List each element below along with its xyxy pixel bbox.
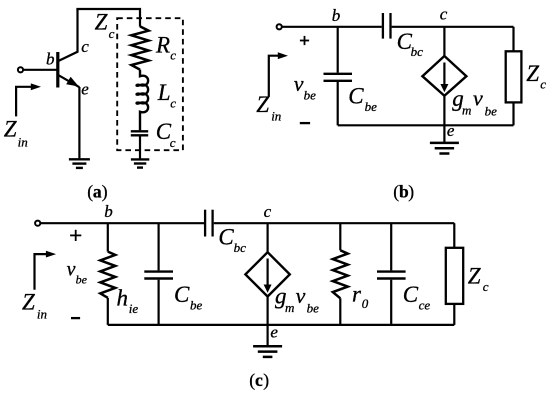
Cbe value label (b) (348, 83, 377, 114)
svg-text:be: be (304, 88, 317, 103)
vbe label (b) (294, 71, 316, 103)
gm vbe label (c) (275, 283, 319, 315)
input terminal (a) (18, 67, 23, 72)
svg-text:R: R (155, 33, 170, 58)
svg-text:m: m (462, 102, 471, 117)
r0 value label (352, 282, 369, 312)
node c label (b) (440, 5, 448, 24)
svg-text:v: v (473, 86, 483, 111)
svg-text:Z: Z (22, 290, 35, 315)
Cbe value label (c) (174, 282, 203, 313)
minus sign (b) (300, 122, 310, 124)
capacitor Cc (131, 131, 148, 135)
caption (b) (393, 182, 414, 202)
impedance Zc box (b) (506, 51, 522, 102)
caption (a) (87, 181, 108, 201)
ground (emitter a) (69, 159, 90, 168)
wire top right (c) (214, 222, 455, 224)
svg-text:c: c (170, 135, 176, 150)
wire top left (c) (41, 222, 205, 224)
plus sign (c) (70, 230, 81, 241)
ground (Zc network) (131, 159, 149, 167)
wire Cbe to bottom (b) (337, 82, 339, 125)
svg-text:m: m (285, 300, 294, 315)
svg-text:c: c (540, 76, 546, 91)
inductor Lc (137, 70, 149, 131)
Zin arrow (b) (269, 52, 288, 97)
plus sign (b) (300, 36, 309, 45)
node b label (c) (104, 202, 113, 221)
wire Cc to ground (139, 136, 141, 158)
Zin arrow (a) (16, 83, 41, 116)
wire Zc to bottom (c) (453, 304, 455, 325)
svg-text:v: v (67, 258, 76, 280)
wire top left (b) (282, 26, 382, 28)
svg-text:r: r (352, 282, 362, 307)
Cc value label (156, 119, 176, 150)
wire Zc to bottom (b) (512, 102, 514, 125)
svg-text:v: v (296, 283, 306, 308)
svg-text:C: C (174, 282, 190, 307)
Zin label (c) (22, 290, 47, 322)
wire bottom (b) (338, 124, 514, 126)
node e label (b) (447, 121, 455, 140)
svg-text:in: in (37, 307, 47, 322)
capacitor Cbc (b) (383, 13, 391, 39)
resistor Rc (131, 26, 148, 69)
ground (b) (430, 143, 459, 154)
svg-text:in: in (18, 134, 28, 149)
Zin label (a) (4, 116, 28, 149)
svg-text:b: b (332, 6, 341, 25)
svg-text:be: be (485, 103, 498, 118)
Cbc value label (b) (397, 29, 424, 59)
impedance Zc box (c) (446, 248, 463, 304)
svg-text:bc: bc (234, 240, 247, 255)
svg-text:ce: ce (419, 297, 431, 312)
wire e to ground (c) (267, 325, 269, 346)
wire right down (b) (512, 27, 514, 52)
Zc label (c) (468, 264, 489, 294)
node e label (c) (270, 323, 278, 342)
wire base input (a) (23, 69, 56, 71)
svg-text:be: be (307, 301, 320, 316)
transistor Q1 base bar (56, 52, 59, 88)
svg-text:e: e (447, 121, 455, 140)
node c label (c) (264, 202, 272, 221)
svg-text:b: b (104, 202, 113, 221)
wire bottom (c) (108, 324, 455, 326)
svg-text:ie: ie (129, 301, 139, 316)
capacitor Cbe (b) (324, 74, 353, 81)
svg-text:e: e (81, 80, 89, 99)
node b label (a) (46, 49, 55, 68)
wire source to bottom (c) (267, 297, 269, 325)
capacitor Cbc (c) (205, 210, 213, 237)
svg-text:Z: Z (95, 10, 108, 35)
hie value label (117, 286, 139, 316)
node e label (a) (81, 80, 89, 99)
capacitor Cbe (c) (144, 223, 173, 325)
node b label (b) (332, 6, 341, 25)
svg-text:): ) (102, 181, 108, 201)
gm vbe label (b) (452, 86, 497, 119)
svg-text:Z: Z (526, 61, 539, 86)
svg-text:a: a (93, 181, 102, 201)
svg-text:): ) (263, 370, 269, 390)
svg-text:be: be (76, 272, 88, 286)
Zc label (b) (526, 61, 546, 91)
vbe label (c) (67, 258, 88, 286)
svg-text:C: C (403, 282, 419, 307)
Rc value label (155, 33, 176, 63)
transistor Q1 emitter lead with arrow (58, 75, 80, 87)
dependent source gm*vbe (b) (422, 56, 466, 96)
transistor Q1 collector lead (58, 9, 78, 61)
input terminal (b) (277, 24, 282, 29)
Cbc value label (c) (218, 225, 246, 256)
svg-text:c: c (170, 48, 176, 63)
Zin arrow (c) (35, 251, 57, 290)
svg-text:Z: Z (256, 92, 269, 117)
svg-text:c: c (255, 370, 263, 390)
input terminal (c) (35, 221, 40, 226)
svg-text:): ) (408, 182, 414, 202)
minus sign (c) (71, 317, 80, 319)
dependent source gm*vbe (c) (245, 252, 289, 296)
wire collector top (a) (76, 9, 140, 27)
wire emitter to ground (78, 87, 80, 158)
Zin label (b) (256, 92, 281, 124)
svg-text:c: c (264, 202, 272, 221)
dashed box Zc network (117, 18, 183, 150)
node c label (a) (81, 37, 89, 56)
svg-text:be: be (365, 99, 378, 114)
svg-text:b: b (46, 49, 55, 68)
resistor r0 (c) (333, 223, 348, 325)
svg-text:v: v (294, 71, 304, 96)
wire node c down (c) (267, 223, 269, 252)
svg-text:0: 0 (362, 296, 369, 311)
svg-text:c: c (483, 279, 489, 294)
wire node c down (b) (443, 27, 445, 56)
svg-text:e: e (270, 323, 278, 342)
svg-text:c: c (440, 5, 448, 24)
ground (c) (253, 346, 282, 357)
svg-text:Z: Z (468, 264, 481, 289)
svg-text:c: c (170, 95, 176, 110)
wire e to ground (b) (443, 125, 445, 142)
Lc value label (157, 80, 177, 110)
capacitor Cce (c) (377, 223, 406, 325)
svg-text:Z: Z (4, 116, 17, 141)
wire right down (c) (453, 223, 455, 248)
svg-text:C: C (348, 83, 364, 108)
svg-text:bc: bc (411, 44, 424, 59)
svg-text:in: in (271, 109, 281, 124)
svg-text:h: h (117, 286, 129, 311)
Zc label (a) (95, 10, 115, 42)
svg-text:L: L (157, 80, 171, 105)
svg-text:c: c (109, 26, 115, 41)
wire top right (b) (392, 26, 514, 28)
svg-text:c: c (81, 37, 89, 56)
caption (c) (249, 370, 269, 390)
resistor hie (c) (100, 223, 115, 325)
svg-text:be: be (190, 297, 203, 312)
svg-text:C: C (218, 225, 234, 250)
wire node b down (b) (337, 27, 339, 73)
wire source to bottom (b) (443, 96, 445, 126)
Cce value label (403, 282, 431, 313)
